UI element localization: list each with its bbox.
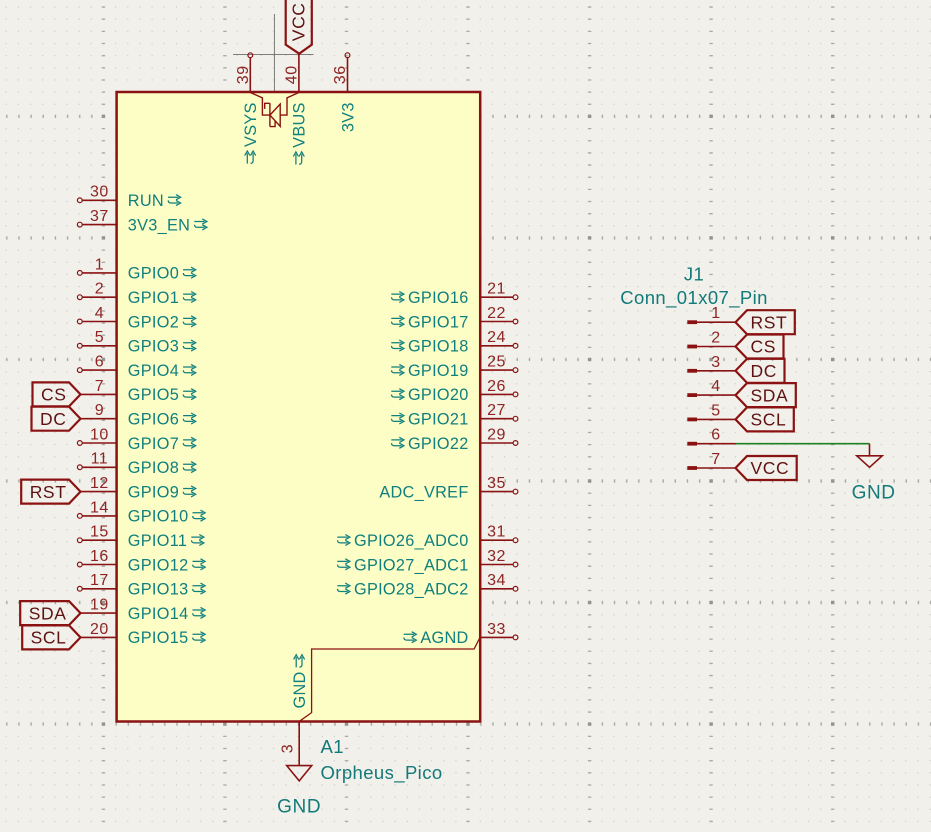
svg-text:6: 6: [711, 427, 720, 444]
svg-text:GND: GND: [277, 796, 321, 817]
pin 24 GPIO18 (right): [391, 329, 518, 355]
svg-text:32: 32: [487, 548, 506, 565]
svg-text:10: 10: [90, 426, 109, 443]
svg-text:37: 37: [90, 208, 109, 225]
svg-text:CS: CS: [751, 337, 777, 357]
svg-text:GPIO9: GPIO9: [128, 483, 179, 501]
grid major ticks: [103, 0, 832, 832]
global label SCL (J1 pin 5): [736, 407, 794, 431]
svg-text:5: 5: [711, 402, 720, 419]
cursor crosshair: [233, 14, 314, 94]
svg-text:GPIO17: GPIO17: [408, 313, 469, 331]
internal schottky diode D (VSYS-VBUS): [250, 93, 299, 127]
pin 35 ADC_VREF (right): [379, 475, 518, 501]
J1 pin 7: [687, 451, 735, 470]
svg-text:3: 3: [280, 744, 297, 753]
svg-text:Conn_01x07_Pin: Conn_01x07_Pin: [620, 287, 768, 309]
svg-text:GPIO5: GPIO5: [128, 386, 179, 404]
global label CS (left): [33, 382, 81, 406]
svg-text:GPIO1: GPIO1: [128, 289, 179, 307]
svg-text:36: 36: [332, 65, 349, 84]
svg-text:26: 26: [487, 378, 506, 395]
svg-text:CS: CS: [41, 385, 67, 405]
pin 32 GPIO27_ADC1 (right): [337, 548, 518, 574]
svg-text:VCC: VCC: [288, 2, 308, 41]
svg-text:29: 29: [487, 426, 506, 443]
svg-text:24: 24: [487, 329, 506, 346]
pin 20 GPIO15 (left): [81, 621, 206, 647]
pin 33 AGND (right): [404, 621, 518, 647]
pin 31 GPIO26_ADC0 (right): [337, 524, 518, 550]
pin 27 GPIO21 (right): [391, 402, 518, 428]
svg-text:34: 34: [487, 572, 506, 589]
pin 39 VSYS (top): [235, 53, 260, 164]
svg-text:1: 1: [95, 256, 104, 273]
svg-text:A1: A1: [321, 736, 344, 757]
J1 pin 5: [687, 402, 735, 421]
global label DC (J1 pin 3): [736, 359, 785, 383]
svg-text:GPIO15: GPIO15: [128, 629, 189, 647]
svg-text:VCC: VCC: [751, 458, 790, 478]
J1 pin 2: [687, 330, 735, 349]
svg-text:GPIO20: GPIO20: [408, 386, 469, 404]
global label CS (J1 pin 2): [736, 335, 784, 359]
svg-text:33: 33: [487, 621, 506, 638]
pin 12 GPIO9 (left): [81, 475, 196, 501]
pin 25 GPIO19 (right): [391, 354, 518, 380]
pin 3 GND (bottom): [280, 655, 309, 766]
pin 21 GPIO16 (right): [391, 281, 518, 307]
power symbol GND (pin 3): [287, 766, 312, 781]
svg-text:RUN: RUN: [128, 192, 164, 210]
global label VCC (J1 pin 7): [736, 456, 797, 480]
J1 pin 4: [687, 378, 735, 397]
svg-text:VSYS: VSYS: [242, 102, 260, 147]
svg-text:GPIO3: GPIO3: [128, 338, 179, 356]
svg-text:3V3: 3V3: [339, 102, 357, 132]
svg-text:GPIO16: GPIO16: [408, 289, 469, 307]
J1 pin 3: [687, 354, 735, 373]
svg-text:GPIO14: GPIO14: [128, 605, 189, 623]
pin 4 GPIO2 (left): [77, 305, 195, 331]
pin 40 VBUS (top): [284, 54, 309, 165]
global label RST (left): [21, 480, 80, 504]
pin 17 GPIO13 (left): [77, 572, 205, 598]
svg-text:ADC_VREF: ADC_VREF: [379, 483, 468, 501]
svg-text:35: 35: [487, 475, 506, 492]
pin 1 GPIO0 (left): [77, 256, 195, 282]
pin 22 GPIO17 (right): [391, 305, 518, 331]
svg-text:SCL: SCL: [751, 410, 787, 430]
wire J1 pin6 to GND: [736, 443, 870, 445]
pin 6 GPIO4 (left): [77, 354, 195, 380]
pin 26 GPIO20 (right): [391, 378, 518, 404]
svg-text:11: 11: [91, 451, 109, 468]
pin 7 GPIO5 (left): [81, 378, 196, 404]
pin 9 GPIO6 (left): [81, 402, 196, 428]
svg-text:DC: DC: [751, 361, 777, 381]
global label SDA (J1 pin 4): [736, 383, 796, 407]
pin 2 GPIO1 (left): [77, 281, 195, 307]
pin 11 GPIO8 (left): [77, 451, 195, 477]
svg-text:SCL: SCL: [31, 628, 67, 648]
svg-text:4: 4: [711, 378, 720, 395]
pin 36 3V3 (top): [332, 53, 357, 132]
svg-text:GPIO26_ADC0: GPIO26_ADC0: [354, 532, 469, 550]
svg-text:GPIO2: GPIO2: [128, 313, 179, 331]
svg-text:GPIO8: GPIO8: [128, 459, 179, 477]
svg-text:5: 5: [95, 329, 104, 346]
svg-text:1: 1: [711, 305, 720, 322]
svg-text:GND: GND: [291, 671, 309, 708]
svg-text:GPIO27_ADC1: GPIO27_ADC1: [354, 556, 469, 574]
svg-text:VBUS: VBUS: [291, 102, 309, 148]
svg-text:GPIO10: GPIO10: [128, 508, 189, 526]
pin 5 GPIO3 (left): [77, 329, 195, 355]
svg-text:39: 39: [235, 65, 252, 84]
global label SCL (left): [22, 625, 80, 649]
svg-text:GPIO4: GPIO4: [128, 362, 179, 380]
svg-text:9: 9: [95, 402, 104, 419]
pin 37 3V3_EN (left): [77, 208, 207, 234]
svg-text:40: 40: [284, 65, 301, 84]
svg-text:RST: RST: [751, 312, 788, 332]
pin 14 GPIO10 (left): [77, 499, 205, 525]
pin 29 GPIO22 (right): [391, 426, 518, 452]
pin 19 GPIO14 (left): [81, 597, 206, 623]
svg-text:30: 30: [90, 184, 109, 201]
global label RST (J1 pin 1): [736, 310, 795, 334]
svg-text:RST: RST: [30, 482, 67, 502]
svg-text:2: 2: [711, 330, 720, 347]
svg-text:19: 19: [90, 597, 109, 614]
svg-text:GPIO11: GPIO11: [128, 532, 187, 550]
svg-text:3V3_EN: 3V3_EN: [128, 216, 190, 234]
pin 15 GPIO11 (left): [77, 524, 204, 550]
svg-text:GPIO18: GPIO18: [408, 338, 469, 356]
J1 pin 6: [687, 427, 735, 446]
svg-text:31: 31: [487, 524, 506, 541]
MCU A1 Orpheus_Pico body: [117, 92, 481, 722]
svg-text:4: 4: [95, 305, 104, 322]
svg-text:7: 7: [711, 451, 720, 468]
svg-text:GPIO7: GPIO7: [128, 435, 179, 453]
svg-text:GPIO0: GPIO0: [128, 265, 179, 283]
svg-text:21: 21: [487, 281, 506, 298]
svg-text:15: 15: [90, 524, 109, 541]
pin 16 GPIO12 (left): [77, 548, 205, 574]
svg-text:27: 27: [487, 402, 506, 419]
svg-text:GPIO13: GPIO13: [128, 581, 189, 599]
svg-text:GPIO12: GPIO12: [128, 556, 189, 574]
svg-text:SDA: SDA: [751, 385, 789, 405]
svg-text:2: 2: [95, 281, 104, 298]
global label DC (left): [32, 407, 81, 431]
svg-text:6: 6: [95, 354, 104, 371]
global label SDA (left): [20, 601, 80, 625]
svg-text:20: 20: [90, 621, 109, 638]
svg-text:16: 16: [90, 548, 109, 565]
svg-text:Orpheus_Pico: Orpheus_Pico: [321, 762, 443, 784]
power symbol GND (J1 pin 6): [857, 444, 882, 468]
svg-text:SDA: SDA: [29, 603, 67, 623]
internal AGND net line: [299, 637, 480, 721]
svg-text:J1: J1: [684, 263, 704, 284]
J1 pin 1: [687, 305, 735, 324]
svg-text:17: 17: [90, 572, 109, 589]
svg-text:GPIO19: GPIO19: [408, 362, 469, 380]
svg-text:DC: DC: [40, 409, 66, 429]
svg-text:12: 12: [90, 475, 109, 492]
svg-text:GPIO28_ADC2: GPIO28_ADC2: [354, 581, 469, 599]
svg-text:GPIO22: GPIO22: [408, 435, 469, 453]
pin 34 GPIO28_ADC2 (right): [337, 572, 518, 598]
power label VCC (pin 40): [286, 0, 312, 54]
svg-text:14: 14: [90, 499, 109, 516]
svg-text:22: 22: [487, 305, 506, 322]
svg-text:25: 25: [487, 354, 506, 371]
svg-text:3: 3: [711, 354, 720, 371]
pin 10 GPIO7 (left): [77, 426, 195, 452]
svg-text:GPIO21: GPIO21: [408, 411, 469, 429]
svg-text:7: 7: [95, 378, 104, 395]
svg-text:GND: GND: [852, 483, 896, 504]
svg-text:AGND: AGND: [420, 629, 468, 647]
svg-text:GPIO6: GPIO6: [128, 411, 179, 429]
pin 30 RUN (left): [77, 184, 180, 210]
